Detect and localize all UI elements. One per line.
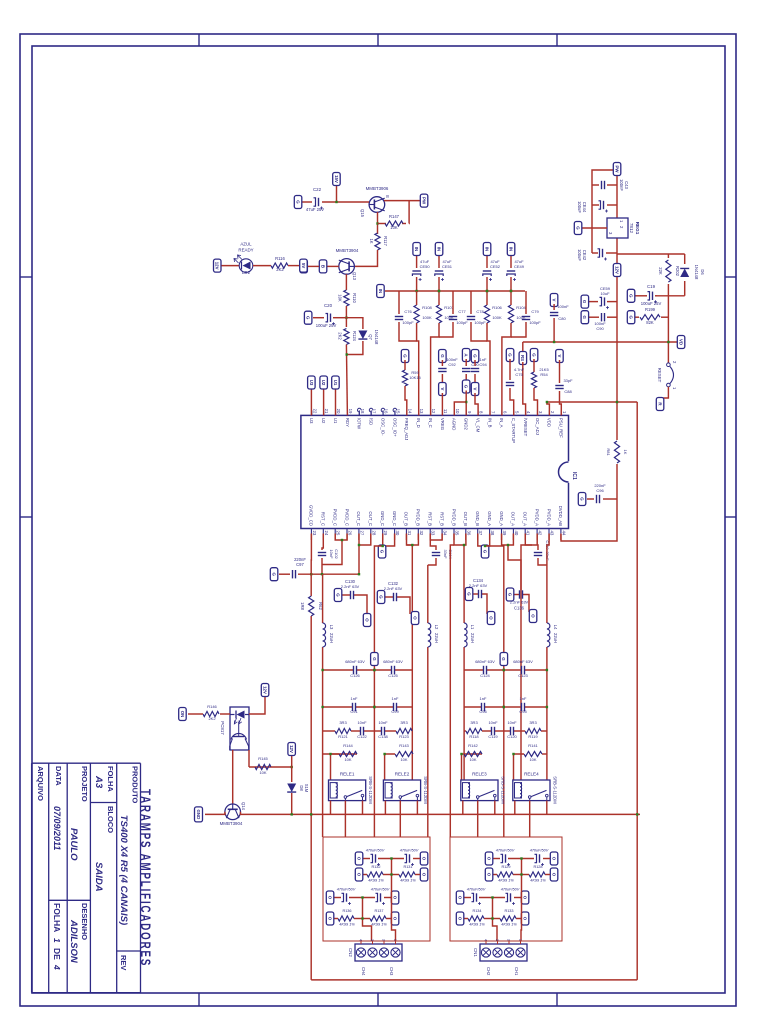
svg-text:O: O — [522, 917, 527, 921]
svg-text:22uH: 22uH — [470, 633, 475, 643]
wire relay feed rail — [241, 813, 640, 815]
port GND_B pins 37 38 — [478, 534, 490, 547]
svg-text:R144: R144 — [343, 743, 353, 748]
svg-text:2K2: 2K2 — [276, 267, 284, 272]
wire Q13 bottom to ports — [327, 265, 339, 267]
relay RELE4 SRB-S-112DM — [513, 780, 550, 801]
svg-text:C19: C19 — [647, 284, 656, 289]
resistor R129 4K99 1% — [513, 874, 529, 876]
svg-text:10K: 10K — [390, 225, 398, 230]
wire relay RELE4 coil to rail — [514, 801, 516, 815]
svg-text:4K99 1%: 4K99 1% — [469, 923, 485, 927]
svg-text:21K5: 21K5 — [539, 367, 549, 372]
svg-text:VDD: VDD — [547, 418, 552, 427]
wire net channel D input — [416, 291, 418, 305]
wire relay RELE3 coil to rail — [462, 801, 464, 815]
svg-text:DESENHO: DESENHO — [80, 903, 89, 940]
resistor R133 4K99 1% — [521, 912, 529, 925]
svg-text:ARQUIVO: ARQUIVO — [36, 766, 45, 801]
wire to C20 junction — [345, 306, 347, 327]
wire C97 riser — [298, 573, 359, 575]
svg-text:1: 1 — [518, 939, 522, 941]
svg-text:SRB-S-112DM: SRB-S-112DM — [423, 776, 428, 804]
port bottom of R133 chain — [464, 918, 468, 920]
wire reset to port — [660, 387, 668, 398]
relay RELE1 SRB-S-112DM — [329, 780, 366, 801]
svg-text:PAULO: PAULO — [68, 828, 79, 861]
svg-text:G: G — [501, 657, 506, 661]
svg-text:CN2: CN2 — [348, 948, 353, 957]
port net on Q15 base — [336, 185, 338, 202]
svg-text:27: 27 — [359, 531, 364, 536]
svg-text:10uF: 10uF — [600, 291, 610, 296]
svg-text:R146: R146 — [207, 704, 217, 709]
svg-text:E: E — [385, 195, 390, 198]
svg-text:100pF: 100pF — [529, 320, 541, 325]
port P4 top of long rail — [677, 336, 685, 349]
no-connect hooks on pins 15-18 — [357, 408, 396, 415]
svg-text:12V: 12V — [215, 262, 220, 270]
svg-text:4.7nF: 4.7nF — [514, 367, 525, 372]
svg-text:3: 3 — [370, 939, 374, 941]
wire group 2 chain 2 middle tap to CN1 — [493, 898, 498, 942]
port right of C130 — [363, 614, 371, 627]
svg-text:O: O — [392, 917, 397, 921]
capacitor CE44 100uF — [607, 204, 617, 206]
wire to IC pin 19 RDY — [346, 345, 347, 416]
port under Q13 second — [300, 260, 308, 273]
svg-text:O: O — [551, 857, 556, 861]
svg-text:DVDD_AB: DVDD_AB — [558, 506, 563, 526]
svg-text:C123: C123 — [518, 673, 528, 678]
svg-text:680nF 63V: 680nF 63V — [383, 659, 403, 664]
svg-text:Q13: Q13 — [352, 272, 357, 281]
svg-text:O: O — [551, 873, 556, 877]
svg-text:CH3: CH3 — [389, 967, 394, 976]
svg-text:C122: C122 — [357, 734, 367, 739]
capacitor C22 47uF 25V — [314, 198, 324, 210]
svg-text:GND2: GND2 — [464, 418, 469, 431]
capacitor C94 1nF — [471, 350, 479, 363]
svg-text:10K: 10K — [469, 757, 476, 762]
title block text PROJETO row — [68, 766, 89, 964]
svg-text:7812: 7812 — [629, 223, 634, 234]
svg-text:PVDD_C: PVDD_C — [333, 509, 338, 526]
svg-text:U3: U3 — [309, 418, 314, 424]
svg-text:GND_B: GND_B — [475, 511, 480, 526]
wire pin 33 34 RST_B join — [430, 534, 442, 541]
svg-text:24: 24 — [324, 531, 329, 536]
svg-text:O: O — [486, 873, 491, 877]
svg-text:C99: C99 — [391, 709, 399, 714]
diode D6 1N4148 — [684, 254, 686, 264]
svg-text:G: G — [628, 294, 633, 298]
svg-text:100uF 25V: 100uF 25V — [641, 301, 662, 306]
wire pin pair 41 42 PVDD_A — [525, 534, 537, 546]
svg-text:CE52: CE52 — [490, 264, 501, 269]
svg-text:39: 39 — [502, 531, 507, 536]
port bottom of CE8 chain — [493, 858, 500, 860]
svg-text:C79: C79 — [531, 309, 539, 314]
capacitor C90b 100nF — [607, 316, 617, 318]
svg-text:O: O — [457, 917, 462, 921]
wire Q15 base chain — [322, 201, 369, 203]
wire GND_C drop to mid column — [374, 546, 382, 560]
svg-text:C102: C102 — [334, 549, 339, 559]
switch RESET — [657, 361, 677, 390]
svg-text:OUT_C: OUT_C — [368, 511, 373, 526]
resistor R143 10K — [411, 753, 414, 755]
wire pin pair 35 36 PVDD_B — [454, 534, 466, 546]
wire main +15V rail — [561, 169, 617, 541]
svg-text:OUT_A: OUT_A — [511, 512, 516, 526]
svg-text:ON: ON — [180, 711, 185, 718]
svg-text:33pF: 33pF — [563, 378, 573, 383]
wire relay RELE3 common to output group — [477, 801, 479, 837]
svg-text:VD: VD — [678, 339, 683, 345]
svg-text:4: 4 — [359, 939, 363, 941]
port ground under C20 — [304, 311, 312, 324]
resistor R110 10K — [344, 290, 349, 306]
title block text DATA row — [52, 766, 63, 970]
port net U2 — [323, 388, 325, 415]
capacitor CE50 47uF — [416, 253, 418, 268]
svg-text:100pF: 100pF — [456, 320, 468, 325]
svg-text:R121: R121 — [338, 734, 348, 739]
svg-text:/OTW: /OTW — [357, 418, 362, 430]
svg-text:2K2: 2K2 — [208, 716, 216, 721]
svg-text:R118: R118 — [469, 734, 479, 739]
svg-text:CH4: CH4 — [361, 967, 366, 976]
svg-text:OUT_B: OUT_B — [463, 512, 468, 526]
wire pin pair 39 40 OUT_A — [502, 534, 514, 546]
svg-text:10nF: 10nF — [378, 720, 388, 725]
wire channel A upper rail with L4 — [546, 550, 548, 623]
svg-text:4K99 1%: 4K99 1% — [368, 879, 384, 883]
svg-text:AGND: AGND — [452, 418, 457, 430]
svg-text:12V: 12V — [289, 745, 294, 753]
svg-text:U3: U3 — [309, 380, 314, 386]
svg-text:IN: IN — [508, 247, 513, 251]
svg-text:C138: C138 — [378, 734, 388, 739]
svg-text:4: 4 — [484, 939, 488, 941]
svg-text:10K15: 10K15 — [409, 375, 421, 380]
resistor R132 4K99 1% — [383, 874, 399, 876]
svg-text:RST_B: RST_B — [428, 512, 433, 526]
svg-text:G: G — [507, 593, 512, 597]
svg-text:C96: C96 — [479, 709, 487, 714]
wire channel D lower rail — [310, 574, 312, 980]
svg-text:C125: C125 — [388, 673, 398, 678]
junction dots at wire joins — [291, 290, 619, 816]
port ground under C134 — [465, 588, 473, 601]
svg-text:35: 35 — [455, 531, 460, 536]
wire mid column A extension — [503, 560, 505, 663]
svg-text:PROJETO: PROJETO — [80, 766, 89, 802]
port net U1 — [335, 388, 337, 415]
svg-text:G: G — [531, 353, 536, 357]
wire stubs into CN1 — [486, 941, 521, 944]
resistor R134 4K99 1% — [484, 918, 500, 920]
svg-text:C96: C96 — [596, 488, 604, 493]
svg-text:G: G — [472, 354, 477, 358]
svg-text:R134: R134 — [472, 909, 481, 913]
resistor R62 1R8 in channel D rail — [307, 596, 316, 616]
wire branch to D6 R202 — [617, 253, 685, 255]
wire right vertical rail — [311, 979, 637, 981]
svg-text:PSU_REF: PSU_REF — [559, 418, 564, 438]
svg-text:MMBT3904: MMBT3904 — [336, 248, 359, 253]
svg-text:680nF 63V: 680nF 63V — [345, 659, 365, 664]
svg-text:R143: R143 — [399, 743, 409, 748]
svg-text:G: G — [582, 300, 587, 304]
capacitor C120 10nF — [514, 730, 525, 732]
port under Q14 — [195, 807, 203, 822]
svg-text:C88: C88 — [564, 389, 572, 394]
svg-text:V: V — [440, 388, 445, 391]
resistor R124 2K2 — [344, 329, 349, 345]
port right of C136 — [529, 610, 537, 623]
title text TARAMPS AMPLIFICADORES — [138, 789, 153, 967]
capacitor C76 100pF — [395, 317, 403, 320]
svg-text:4K99 1%: 4K99 1% — [400, 879, 416, 883]
svg-text:RST_C: RST_C — [321, 512, 326, 526]
svg-text:IN_C: IN_C — [428, 418, 433, 428]
svg-text:OSC_IO-: OSC_IO- — [380, 418, 385, 436]
port mid ground — [371, 653, 379, 666]
port top of CE8 chain — [550, 852, 558, 865]
svg-text:10K: 10K — [344, 757, 351, 762]
resistor R106 100K — [484, 305, 489, 323]
svg-text:12V: 12V — [614, 266, 619, 274]
svg-text:GND_C: GND_C — [380, 511, 385, 526]
diode Q7 1N4148 — [346, 318, 363, 329]
transistor Q15 MMBT3906 — [369, 197, 385, 213]
svg-text:R131: R131 — [403, 865, 412, 869]
svg-text:2K2: 2K2 — [338, 332, 343, 340]
wire net channel B input — [486, 291, 488, 305]
resistor R104 100K — [508, 305, 513, 323]
wire REG ground rail — [592, 170, 617, 253]
wire channel D upper rail with L3 — [322, 574, 324, 623]
label channels for CN1 — [486, 967, 519, 976]
svg-text:O: O — [356, 857, 361, 861]
resistor R118 3R3 — [464, 730, 466, 732]
svg-text:D6: D6 — [700, 269, 705, 275]
capacitor C79 100pF — [522, 317, 530, 320]
port top of CE4 chain — [420, 852, 428, 865]
svg-text:36: 36 — [466, 531, 471, 536]
svg-text:C78: C78 — [476, 309, 484, 314]
svg-text:470uF/50V: 470uF/50V — [467, 888, 486, 892]
svg-text:470uF/50V: 470uF/50V — [496, 849, 515, 853]
capacitor CE10 470uF 50V — [514, 897, 521, 899]
capacitor C95 1nF — [525, 706, 547, 708]
resistor R123 3R3 — [411, 730, 413, 732]
svg-text:G: G — [306, 316, 311, 320]
svg-text:GVDD_CD: GVDD_CD — [309, 505, 314, 526]
svg-text:C136: C136 — [514, 606, 525, 611]
svg-text:10K: 10K — [259, 770, 266, 775]
svg-text:G: G — [295, 200, 300, 204]
resistor R202 22K — [667, 254, 669, 258]
svg-text:25: 25 — [336, 531, 341, 536]
wire relay RELE4 contact to rail — [546, 801, 548, 815]
svg-text:O: O — [327, 896, 332, 900]
svg-text:R123: R123 — [399, 734, 409, 739]
wire PC817 pin4 to port — [249, 695, 265, 714]
svg-text:PVDD_A: PVDD_A — [546, 509, 551, 526]
svg-text:PW: PW — [421, 197, 426, 205]
svg-text:Q7: Q7 — [368, 334, 373, 340]
capacitor C78 100pF — [467, 317, 475, 320]
wire R147 top to emitter rail — [408, 201, 410, 224]
svg-text:R142: R142 — [468, 743, 478, 748]
svg-text:10nF: 10nF — [488, 720, 498, 725]
svg-text:100K: 100K — [422, 315, 432, 320]
svg-text:100uF 25V: 100uF 25V — [316, 323, 337, 328]
capacitor C122 10nF — [351, 730, 360, 732]
svg-text:IN_B: IN_B — [487, 418, 492, 428]
svg-text:GND_A: GND_A — [499, 511, 504, 526]
svg-text:C77: C77 — [458, 309, 466, 314]
svg-text:RELE4: RELE4 — [524, 772, 539, 777]
port right of C134 — [487, 612, 495, 625]
svg-text:22K: 22K — [658, 267, 663, 275]
svg-text:G: G — [271, 572, 276, 576]
svg-text:10nF: 10nF — [329, 549, 334, 559]
capacitor CE4 470uF 50V — [413, 858, 420, 860]
resistor R136 4K99 1% — [354, 918, 370, 920]
svg-text:GND_A: GND_A — [487, 511, 492, 526]
svg-text:SRB-S-112DM: SRB-S-112DM — [368, 776, 373, 804]
wire R117 to Q13 base — [355, 250, 378, 266]
svg-text:R129: R129 — [501, 865, 510, 869]
wire pin pair 27 28 OUT_C — [359, 534, 371, 546]
svg-text:C126: C126 — [350, 673, 360, 678]
svg-text:PVDD_B: PVDD_B — [451, 509, 456, 526]
svg-text:47uF 25V: 47uF 25V — [306, 207, 324, 212]
svg-text:C75: C75 — [515, 372, 523, 377]
wire PC817 pin3 to R145 — [248, 750, 250, 767]
transistor Q13 MMBT3904 — [339, 259, 355, 275]
svg-text:R110: R110 — [352, 293, 357, 303]
capacitor C132 2.2nF 63V — [397, 597, 410, 614]
wire channel A lower rail — [520, 590, 522, 780]
svg-text:100nF: 100nF — [446, 357, 458, 362]
svg-text:4K99 1%: 4K99 1% — [498, 879, 514, 883]
IC1 right pins 23-44 with numbers and names — [309, 505, 567, 536]
inductor L3 22uH — [323, 623, 326, 647]
svg-text:PRODUTO: PRODUTO — [131, 766, 140, 804]
svg-text:TS400 X4 R5 (4 CANAIS): TS400 X4 R5 (4 CANAIS) — [118, 815, 129, 925]
svg-text:470uF/50V: 470uF/50V — [366, 849, 385, 853]
capacitor C88 33pF at PSU_REF — [556, 350, 564, 363]
svg-text:19: 19 — [348, 409, 353, 414]
wire channel C lower feed — [411, 573, 413, 575]
svg-text:MMBT3904: MMBT3904 — [220, 821, 243, 826]
svg-text:28: 28 — [371, 531, 376, 536]
svg-text:G: G — [440, 354, 445, 358]
wire relay RELE4 common to output group — [529, 801, 531, 837]
capacitor CE5 470uF 50V — [349, 897, 375, 899]
svg-text:IN: IN — [414, 247, 419, 251]
svg-text:41: 41 — [526, 531, 531, 536]
svg-text:100K: 100K — [492, 315, 502, 320]
svg-text:3R3: 3R3 — [529, 720, 537, 725]
svg-text:PVDD_A: PVDD_A — [534, 509, 539, 526]
resistor R142 10K — [464, 753, 482, 755]
svg-text:1nF: 1nF — [392, 696, 399, 701]
wire relay RELE1 contact to rail — [362, 801, 364, 815]
svg-text:1N4148: 1N4148 — [374, 330, 379, 345]
svg-text:4: 4 — [52, 964, 62, 970]
capacitor C110 33nF on RST_A — [536, 545, 539, 550]
capacitor C90 100pF near pin 9 — [462, 349, 470, 362]
port right of C132 — [411, 612, 419, 625]
port shared AGND GND2 — [462, 380, 470, 393]
svg-text:/VRESET: /VRESET — [523, 418, 528, 437]
svg-text:R137: R137 — [374, 909, 383, 913]
svg-text:47uF: 47uF — [490, 259, 500, 264]
svg-text:21: 21 — [324, 409, 329, 414]
port ground under C136 — [506, 588, 514, 601]
resistor R137 4K99 1% — [391, 912, 399, 925]
wire pin pair 25 26 PVDD_C — [335, 534, 347, 541]
capacitor CE49 47uF — [510, 253, 512, 268]
svg-text:22uH: 22uH — [329, 633, 334, 643]
svg-text:C90: C90 — [596, 326, 604, 331]
port input CE52 — [483, 243, 491, 256]
port P1 supply — [613, 163, 621, 176]
resistor R59 10K15 — [401, 350, 409, 363]
svg-text:OSC_IO+: OSC_IO+ — [392, 418, 397, 437]
wire pin 4 VRESET to reset port — [523, 362, 526, 415]
inductor L1 22uH — [464, 623, 467, 647]
svg-text:C119: C119 — [488, 734, 498, 739]
wire channel C lower rail — [411, 574, 413, 780]
svg-text:470uF/50V: 470uF/50V — [371, 888, 390, 892]
svg-text:C120: C120 — [507, 734, 517, 739]
svg-text:C20: C20 — [324, 303, 333, 308]
svg-text:C76: C76 — [404, 309, 412, 314]
svg-text:MMBT3906: MMBT3906 — [366, 186, 389, 191]
svg-text:470uF/50V: 470uF/50V — [501, 888, 520, 892]
label channels for CN2 — [361, 967, 394, 976]
svg-text:220nF: 220nF — [594, 483, 606, 488]
svg-text:R81: R81 — [606, 448, 611, 456]
svg-text:R199: R199 — [645, 307, 656, 312]
wire mid ground column — [503, 663, 505, 837]
capacitor C80 100nF on main rail — [550, 294, 558, 307]
capacitor CE6 470uF 50V — [384, 897, 391, 899]
svg-text:R106: R106 — [492, 305, 502, 310]
svg-text:G: G — [372, 657, 377, 661]
svg-text:R202: R202 — [675, 266, 680, 277]
svg-text:15V: 15V — [334, 175, 339, 183]
wire PC817 pin1 to R146 — [220, 713, 230, 715]
svg-text:33: 33 — [431, 531, 436, 536]
svg-text:O: O — [421, 857, 426, 861]
title block table — [32, 719, 141, 992]
svg-text:G: G — [379, 550, 384, 554]
inductor L4 22uH — [547, 623, 550, 647]
port mid ground — [500, 653, 508, 666]
svg-text:C94: C94 — [479, 362, 487, 367]
svg-text:1K: 1K — [623, 450, 628, 455]
port input CE50 — [413, 243, 421, 256]
svg-text:43: 43 — [550, 531, 555, 536]
